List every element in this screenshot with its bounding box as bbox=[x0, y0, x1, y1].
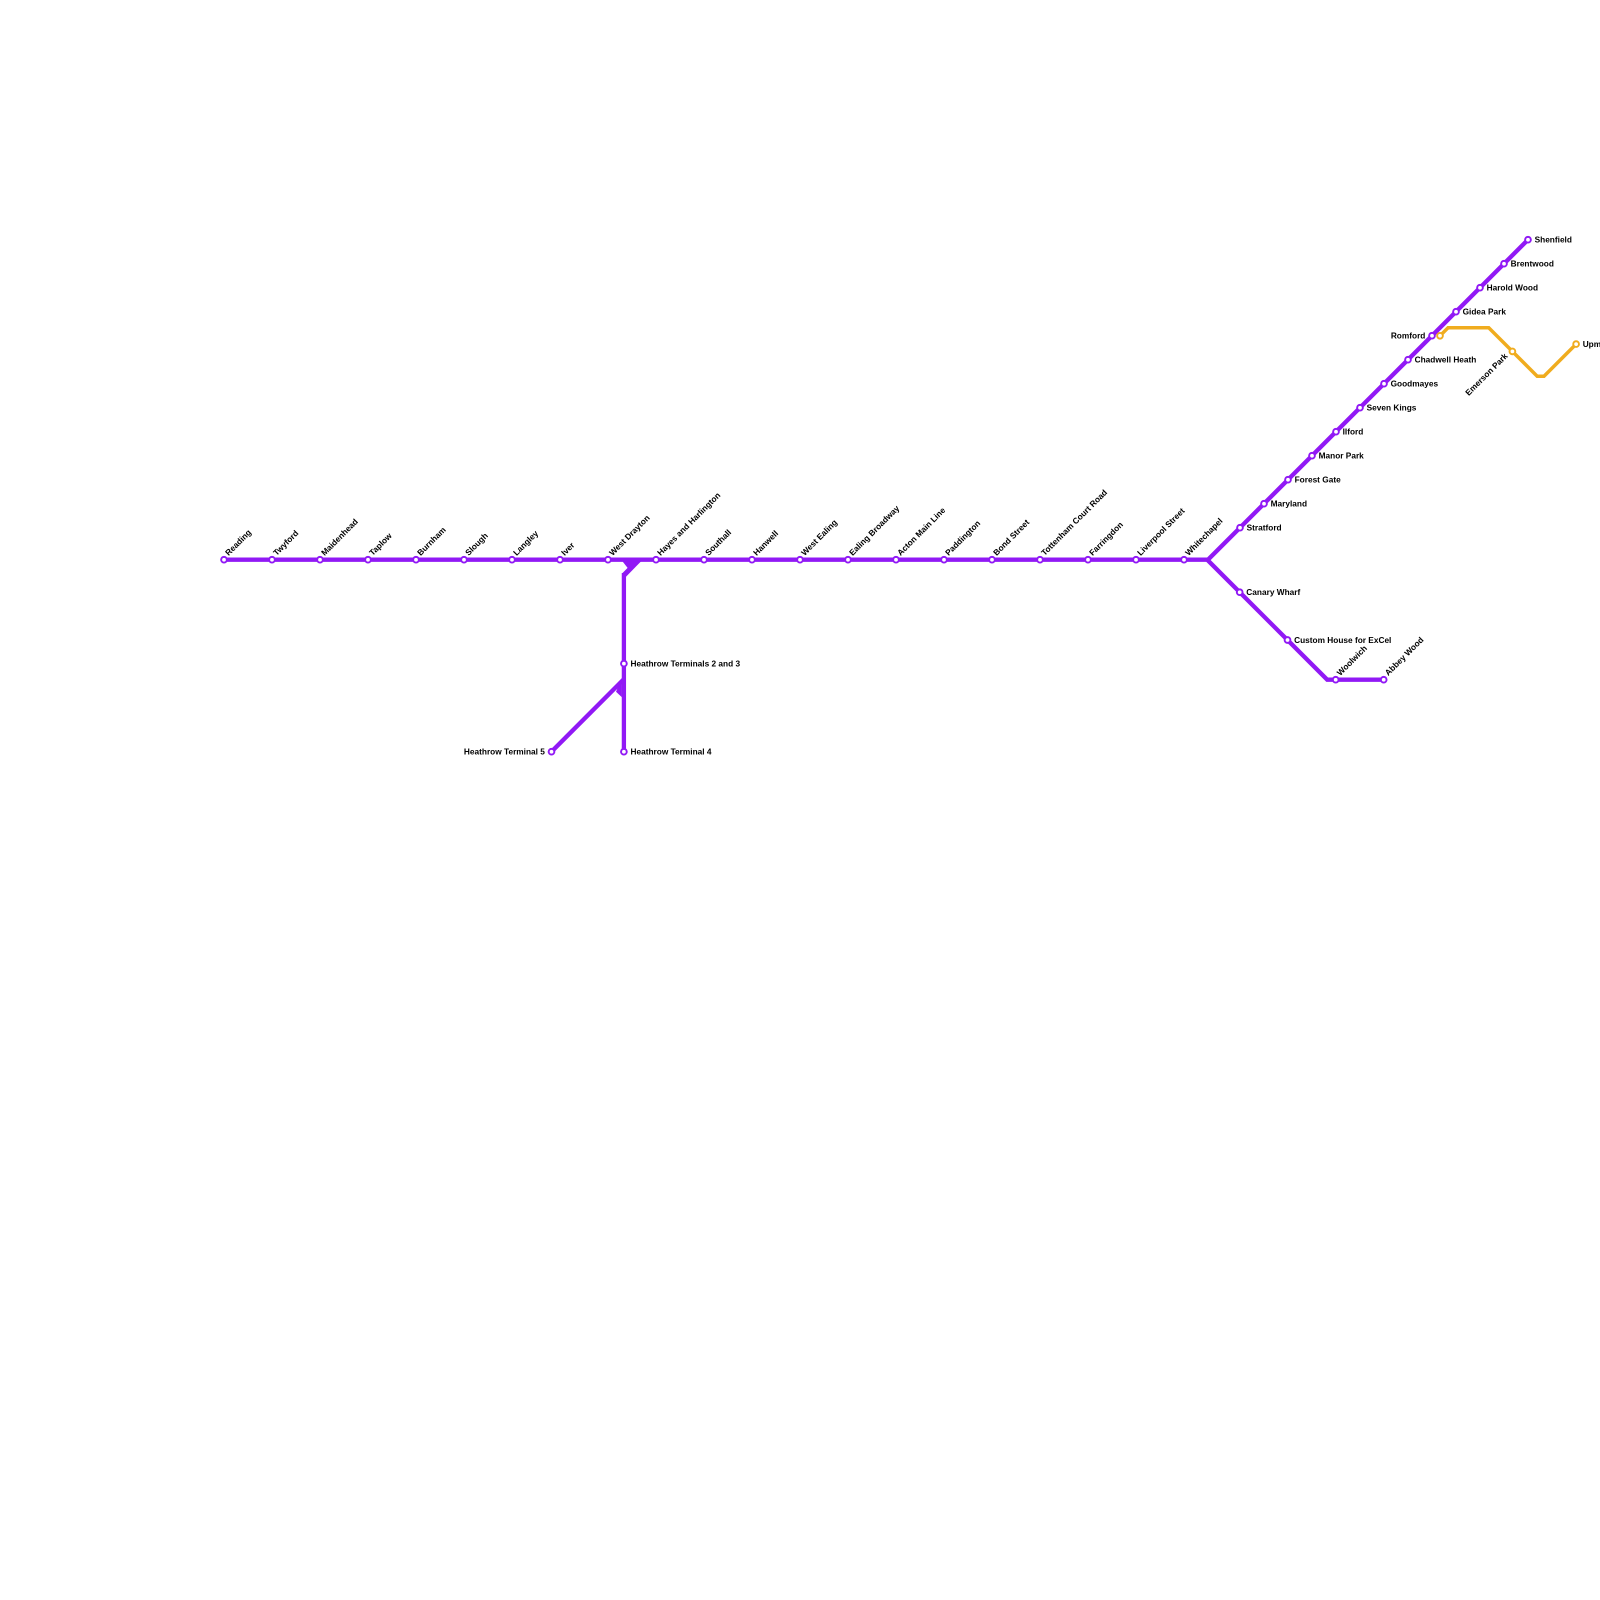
node Heathrow Terminal 5 bbox=[464, 747, 554, 757]
svg-text:Romford: Romford bbox=[1391, 331, 1426, 341]
wire: southeast branch Whitechapel to Abbey Wood (purple) bbox=[1207, 560, 1384, 680]
wire: main line Reading to Shenfield (purple) bbox=[224, 240, 1528, 560]
node Hayes and Harlington bbox=[653, 490, 722, 562]
node Iver bbox=[557, 539, 577, 562]
node Romford (orange line) bbox=[1437, 333, 1443, 339]
node Whitechapel bbox=[1181, 516, 1224, 563]
svg-text:West Ealing: West Ealing bbox=[799, 517, 839, 557]
node Manor Park bbox=[1309, 451, 1364, 461]
svg-text:Bond Street: Bond Street bbox=[991, 517, 1031, 557]
node Abbey Wood bbox=[1381, 635, 1426, 683]
svg-text:Hanwell: Hanwell bbox=[751, 528, 780, 557]
node Ealing Broadway bbox=[845, 503, 901, 563]
junction wedge at West Drayton bbox=[622, 561, 641, 577]
svg-text:Goodmayes: Goodmayes bbox=[1391, 379, 1439, 389]
node Harold Wood bbox=[1477, 283, 1538, 293]
svg-text:Maidenhead: Maidenhead bbox=[319, 517, 360, 558]
svg-text:Farringdon: Farringdon bbox=[1087, 519, 1125, 557]
svg-text:Stratford: Stratford bbox=[1247, 523, 1282, 533]
svg-text:Chadwell Heath: Chadwell Heath bbox=[1415, 355, 1477, 365]
node Langley bbox=[509, 528, 540, 563]
node Emerson Park bbox=[1463, 349, 1515, 398]
svg-text:Paddington: Paddington bbox=[943, 518, 982, 557]
node Brentwood bbox=[1501, 259, 1554, 269]
svg-text:Reading: Reading bbox=[223, 527, 253, 557]
node Stratford bbox=[1237, 523, 1281, 533]
svg-text:Slough: Slough bbox=[463, 531, 490, 558]
node Custom House for ExCel bbox=[1285, 635, 1392, 645]
node Heathrow Terminals 2 and 3 bbox=[621, 659, 740, 669]
node Maryland bbox=[1261, 499, 1307, 509]
svg-text:Southall: Southall bbox=[703, 527, 733, 557]
node Canary Wharf bbox=[1237, 587, 1301, 597]
node Liverpool Street bbox=[1133, 506, 1187, 563]
svg-text:Ilford: Ilford bbox=[1343, 427, 1364, 437]
node Maidenhead bbox=[317, 517, 360, 563]
node Paddington bbox=[941, 518, 982, 562]
node Southall bbox=[701, 527, 733, 562]
svg-text:Taplow: Taplow bbox=[367, 530, 394, 557]
svg-text:Woolwich: Woolwich bbox=[1335, 643, 1369, 677]
node West Ealing bbox=[797, 517, 839, 562]
node Hanwell bbox=[749, 528, 780, 562]
svg-text:Forest Gate: Forest Gate bbox=[1295, 475, 1341, 485]
svg-text:Gidea Park: Gidea Park bbox=[1463, 307, 1507, 317]
svg-text:Shenfield: Shenfield bbox=[1535, 235, 1572, 245]
node Ilford bbox=[1333, 427, 1363, 437]
svg-text:Harold Wood: Harold Wood bbox=[1487, 283, 1538, 293]
node Twyford bbox=[269, 528, 300, 562]
wire: Heathrow branch vertical from West Drayton bbox=[622, 573, 626, 752]
node Seven Kings bbox=[1357, 403, 1417, 413]
svg-text:Heathrow Terminal 4: Heathrow Terminal 4 bbox=[631, 747, 712, 757]
svg-text:Canary Wharf: Canary Wharf bbox=[1246, 587, 1300, 597]
node Woolwich bbox=[1333, 643, 1369, 682]
svg-text:Heathrow Terminals 2 and 3: Heathrow Terminals 2 and 3 bbox=[631, 659, 741, 669]
svg-text:West Drayton: West Drayton bbox=[607, 513, 652, 558]
node Chadwell Heath bbox=[1405, 355, 1476, 365]
wire: Romford to Upminster line (orange) bbox=[1440, 328, 1576, 376]
node Upminster bbox=[1573, 339, 1600, 349]
svg-text:Maryland: Maryland bbox=[1271, 499, 1307, 509]
node Forest Gate bbox=[1285, 475, 1341, 485]
node West Drayton bbox=[605, 513, 652, 563]
node Acton Main Line bbox=[893, 505, 947, 563]
node Shenfield bbox=[1525, 235, 1572, 245]
node Farringdon bbox=[1085, 519, 1125, 562]
svg-text:Twyford: Twyford bbox=[271, 528, 300, 557]
node Burnham bbox=[413, 525, 448, 563]
node Goodmayes bbox=[1381, 379, 1438, 389]
svg-text:Manor Park: Manor Park bbox=[1319, 451, 1365, 461]
svg-text:Acton Main Line: Acton Main Line bbox=[895, 505, 948, 558]
svg-text:Iver: Iver bbox=[559, 539, 577, 557]
wire: Heathrow Terminal 5 diagonal bbox=[552, 680, 624, 752]
node Taplow bbox=[365, 530, 394, 562]
node Bond Street bbox=[989, 517, 1031, 563]
svg-text:Langley: Langley bbox=[511, 528, 541, 558]
node Reading bbox=[221, 527, 253, 562]
svg-text:Ealing Broadway: Ealing Broadway bbox=[847, 503, 902, 558]
svg-text:Burnham: Burnham bbox=[415, 525, 448, 558]
svg-text:Custom House for ExCel: Custom House for ExCel bbox=[1294, 635, 1391, 645]
svg-text:Liverpool Street: Liverpool Street bbox=[1135, 506, 1187, 558]
svg-text:Seven Kings: Seven Kings bbox=[1367, 403, 1417, 413]
svg-text:Upminster: Upminster bbox=[1583, 339, 1600, 349]
node Heathrow Terminal 4 bbox=[621, 747, 712, 757]
junction wedge at Heathrow Terminals 2 and 3 bbox=[616, 679, 622, 698]
svg-text:Brentwood: Brentwood bbox=[1511, 259, 1554, 269]
node Romford bbox=[1391, 331, 1435, 341]
svg-text:Heathrow Terminal 5: Heathrow Terminal 5 bbox=[464, 747, 545, 757]
node Slough bbox=[461, 531, 490, 563]
node Tottenham Court Road bbox=[1037, 487, 1109, 562]
node Gidea Park bbox=[1453, 307, 1506, 317]
